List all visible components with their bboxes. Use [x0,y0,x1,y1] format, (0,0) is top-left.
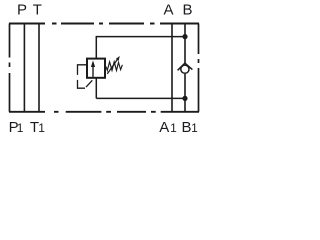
relief valve pilot line (dashed) [78,65,93,88]
junction dot at B line bottom [182,96,187,101]
wire B line upper segment (B to check valve) [184,24,186,65]
svg-text:B: B [181,119,191,136]
wire relief valve bottom connection (horizontal to B line) [96,97,185,99]
svg-text:B: B [182,2,192,19]
check valve C1 ball [181,65,189,73]
wire A line (A to A1) [171,24,173,112]
enclosure top border (chain line) [9,23,199,25]
junction dot at B line top [182,34,187,39]
enclosure right border (chain line) [198,24,200,112]
relief valve spring (zigzag, right side) [106,62,122,71]
spring adjustment arrow (diagonal) [107,59,117,74]
check valve C1 seat (V) [178,63,193,70]
relief valve V1 body (square) [87,59,105,78]
svg-text:A: A [159,119,169,136]
svg-text:T: T [33,2,42,19]
relief valve flow arrow (inside square) [92,65,94,77]
wire relief valve top connection (horizontal to B line) [96,36,185,38]
wire T line (T to T1) [38,24,40,112]
svg-text:1: 1 [191,121,198,135]
enclosure left border (chain line) [9,24,11,112]
svg-text:1: 1 [17,121,24,135]
svg-text:1: 1 [170,121,177,135]
svg-text:P: P [17,2,27,19]
enclosure bottom border (chain line) [9,111,199,113]
wire relief valve output drop [95,78,97,99]
wire P line (P to P1) [23,24,25,112]
wire B line lower segment (check valve to B1) [184,74,186,112]
svg-text:1: 1 [38,121,45,135]
wire relief valve top riser [95,36,97,58]
svg-text:A: A [163,2,173,19]
